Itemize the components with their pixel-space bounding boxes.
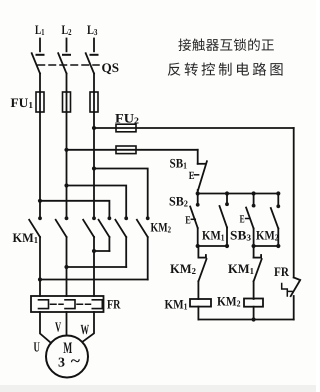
label KM1 aux xyxy=(202,228,225,243)
wire phase3 to KM2 pole6 xyxy=(94,169,148,219)
svg-text:KM1: KM1 xyxy=(228,261,254,276)
svg-text:E: E xyxy=(189,170,195,182)
wire link C-D xyxy=(252,244,281,248)
svg-text:L3: L3 xyxy=(87,22,98,37)
wire L3 lead-in xyxy=(91,39,98,55)
right rail xyxy=(293,128,295,278)
pushbutton SB1 actuator E xyxy=(189,170,195,182)
fuse FU2 label xyxy=(115,111,140,126)
svg-text:FR: FR xyxy=(107,297,121,312)
wire phase 3 down xyxy=(93,112,95,219)
wire phase2 to KM2 pole5 xyxy=(67,186,127,219)
terminal label W xyxy=(81,323,90,338)
pushbutton SB3 actuator E xyxy=(240,214,245,226)
coil KM1 label xyxy=(165,297,188,312)
wire U to motor xyxy=(40,312,50,342)
node dot c xyxy=(252,191,256,195)
contact KM1 aux (seal-in) xyxy=(220,194,229,247)
pushbutton SB1 (NC stop) xyxy=(198,150,207,194)
contact KM1 pole 2 xyxy=(56,216,69,296)
node L2 label xyxy=(62,22,72,37)
svg-text:3: 3 xyxy=(58,355,65,370)
label KM2 interlock xyxy=(170,261,196,276)
svg-text:SB2: SB2 xyxy=(169,194,188,209)
svg-text:L2: L2 xyxy=(62,22,72,37)
thermal relay FR label xyxy=(107,297,121,312)
node L1 label xyxy=(35,22,45,37)
coil KM1 xyxy=(190,299,211,320)
contact KM1 NC interlock xyxy=(254,246,262,299)
pushbutton SB2 (NO start fwd) xyxy=(190,194,199,247)
node junction phase3 cross-feed xyxy=(92,166,96,170)
node junction L2/control xyxy=(64,148,68,152)
svg-text:SB1: SB1 xyxy=(170,156,188,171)
svg-text:FR: FR xyxy=(274,264,290,279)
svg-text:V: V xyxy=(55,321,61,336)
motor M circle xyxy=(46,336,88,378)
svg-text:KM1: KM1 xyxy=(13,230,39,245)
svg-text:W: W xyxy=(81,323,90,338)
control bottom line xyxy=(198,317,293,321)
QS linkage dashed line xyxy=(38,64,99,66)
svg-text:QS: QS xyxy=(102,60,120,75)
terminal label V xyxy=(55,321,61,336)
contact KM1 pole 3 xyxy=(83,216,96,296)
wire link W (pole3-pole4) xyxy=(92,249,110,253)
thermal contact FR (NC) xyxy=(282,278,301,320)
contact KM1 pole 1 xyxy=(29,216,42,296)
fuse FU2 lower + wire to SB1 xyxy=(67,146,198,154)
wire L2 to FU1 xyxy=(66,74,68,93)
pushbutton SB2 actuator E xyxy=(185,215,191,227)
node junction phase1 cross-feed xyxy=(38,199,42,203)
contactor KM1 label (main) xyxy=(13,230,39,245)
label KM1 interlock xyxy=(228,261,254,276)
switch QS pole 3 blade xyxy=(86,53,94,73)
node dot b xyxy=(225,191,229,195)
control node line xyxy=(198,193,279,195)
svg-text:KM1: KM1 xyxy=(202,228,225,243)
contact KM2 aux (seal-in) xyxy=(271,194,280,247)
svg-text:KM2: KM2 xyxy=(256,228,279,243)
pushbutton SB3 label xyxy=(230,228,252,243)
motor M label xyxy=(58,340,81,370)
wire phase 2 down xyxy=(66,112,68,219)
fuse FU1 label xyxy=(11,95,34,110)
thermal relay FR box xyxy=(31,296,104,312)
node dot d xyxy=(276,191,280,195)
svg-text:U: U xyxy=(34,341,40,356)
contactor KM2 label (main) xyxy=(151,220,172,235)
pushbutton SB1 label xyxy=(170,156,188,171)
label KM2 aux xyxy=(256,228,279,243)
node junction L3/control xyxy=(92,126,96,130)
fuse FU2 upper + wire to right rail xyxy=(94,124,294,132)
title line 2 xyxy=(168,62,283,75)
fuse FU1 pole 1 xyxy=(36,92,44,112)
coil KM2 xyxy=(244,299,263,320)
wire phase 1 down xyxy=(39,112,41,219)
wire L1 lead-in xyxy=(37,39,44,55)
svg-text:FU1: FU1 xyxy=(11,95,34,110)
thermal contact FR label xyxy=(274,264,290,279)
coil KM2 label xyxy=(217,294,241,309)
svg-text:KM2: KM2 xyxy=(170,261,196,276)
bottom grey strip xyxy=(0,385,316,392)
wire phase1 to KM2 pole4 xyxy=(40,201,109,219)
contact KM2 pole 6 xyxy=(137,216,150,279)
svg-text:SB3: SB3 xyxy=(230,228,252,243)
node L3 label xyxy=(87,22,98,37)
fuse FU1 pole 2 xyxy=(63,92,71,112)
svg-text:KM2: KM2 xyxy=(151,220,172,235)
wire L1 to FU1 xyxy=(39,74,41,93)
svg-text:E: E xyxy=(240,214,245,226)
wire W to motor xyxy=(83,312,94,341)
svg-text:L1: L1 xyxy=(35,22,45,37)
wire V to motor xyxy=(66,312,68,336)
title line 1 xyxy=(178,38,273,51)
svg-text:~: ~ xyxy=(71,353,81,370)
switch QS pole 2 blade xyxy=(58,53,66,73)
wire L2 lead-in xyxy=(63,39,70,55)
switch QS label xyxy=(102,60,120,75)
node dot a xyxy=(196,191,200,195)
wire link V (pole2-pole5) xyxy=(64,265,126,269)
contact KM2 NC interlock xyxy=(198,246,206,299)
pushbutton SB3 (NO start rev) xyxy=(246,194,255,247)
svg-text:KM2: KM2 xyxy=(217,294,241,309)
fuse FU1 pole 3 xyxy=(90,92,98,112)
wire link A-B xyxy=(196,244,230,248)
contact KM2 pole 4 xyxy=(99,216,112,251)
contact KM2 pole 5 xyxy=(115,216,128,267)
wire L3 to FU1 xyxy=(93,74,95,93)
svg-text:FU2: FU2 xyxy=(115,111,140,126)
svg-text:KM1: KM1 xyxy=(165,297,188,312)
node junction phase2 cross-feed xyxy=(64,183,68,187)
pushbutton SB2 label xyxy=(169,194,188,209)
terminal label U xyxy=(34,341,40,356)
switch QS pole 1 blade xyxy=(32,53,40,73)
svg-text:E: E xyxy=(185,215,191,227)
wire link U (pole1-pole6) xyxy=(38,277,148,281)
